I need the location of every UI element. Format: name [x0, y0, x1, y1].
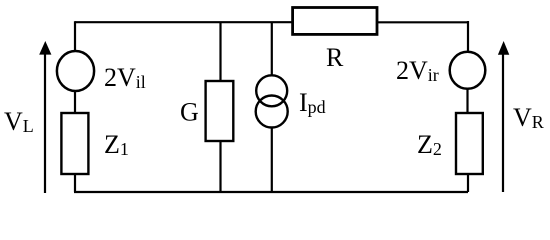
svg-text:R: R — [326, 43, 344, 72]
svg-text:2Vir: 2Vir — [396, 56, 439, 85]
svg-text:Z1: Z1 — [104, 130, 129, 159]
svg-text:Z2: Z2 — [417, 130, 442, 159]
svg-text:2Vil: 2Vil — [104, 63, 146, 92]
svg-text:VL: VL — [4, 107, 34, 136]
svg-text:Ipd: Ipd — [299, 88, 326, 117]
svg-text:G: G — [180, 98, 199, 127]
svg-text:VR: VR — [513, 103, 544, 132]
